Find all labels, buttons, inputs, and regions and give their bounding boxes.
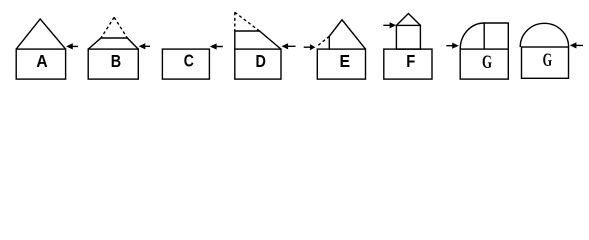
label D xyxy=(256,51,267,71)
label E xyxy=(340,51,351,71)
house F body xyxy=(384,49,432,79)
house B roof trapezoid xyxy=(88,38,138,49)
label C xyxy=(184,51,194,71)
arrow at B (left-pointing) xyxy=(139,43,150,49)
house E body xyxy=(317,49,365,79)
svg-text:F: F xyxy=(406,51,415,71)
house E roof solid part xyxy=(329,20,365,49)
svg-text:D: D xyxy=(256,51,267,71)
house C body xyxy=(162,49,209,79)
house A body xyxy=(16,49,65,79)
house A roof triangle xyxy=(16,19,65,49)
svg-text:A: A xyxy=(36,51,47,71)
house G2 dome arc xyxy=(520,23,568,47)
arrow at G2 (left-pointing) xyxy=(570,42,583,48)
svg-text:G: G xyxy=(482,52,492,73)
label F xyxy=(406,51,415,71)
arrow at C (left-pointing) xyxy=(210,43,223,49)
house B body xyxy=(88,49,138,79)
svg-text:B: B xyxy=(111,51,122,71)
house B dashed apex right leg xyxy=(114,17,127,38)
house D body xyxy=(235,49,281,79)
label G of G1 xyxy=(482,52,492,73)
arrow at E (right-pointing) xyxy=(304,44,316,50)
house D dashed hypotenuse xyxy=(235,12,260,31)
svg-text:C: C xyxy=(184,51,194,71)
house G1 upper square xyxy=(484,23,508,49)
house F roof triangle xyxy=(396,14,420,26)
svg-text:E: E xyxy=(340,51,351,71)
label G of G2 xyxy=(543,51,552,71)
house G2 body xyxy=(522,47,569,78)
arrow at D (left-pointing) xyxy=(282,43,296,49)
house F upper square xyxy=(396,25,420,49)
house D dashed vertical xyxy=(234,12,236,31)
house B dashed apex left leg xyxy=(101,17,114,38)
house E dashed cut line xyxy=(316,36,329,47)
house D roof solid part xyxy=(235,31,281,49)
svg-text:G: G xyxy=(543,51,552,71)
house G1 quarter arc xyxy=(460,23,484,49)
arrow at F (right-pointing) xyxy=(383,22,396,28)
arrow at G1 (right-pointing) xyxy=(446,43,459,49)
label B xyxy=(111,51,122,71)
label A xyxy=(36,51,47,71)
house G1 body xyxy=(460,49,508,79)
arrow at A (left-pointing) xyxy=(66,43,78,49)
